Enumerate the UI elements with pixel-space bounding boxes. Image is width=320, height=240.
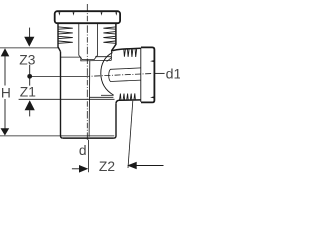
Z1 dimension arrow: [25, 100, 35, 116]
Z1 reference line: [19, 98, 115, 100]
top socket rim: [55, 11, 120, 23]
branch bottom fins: [120, 93, 136, 100]
d1 leader line: [155, 72, 165, 74]
top socket right fins: [103, 27, 115, 43]
top socket body right edge with taper: [111, 23, 116, 51]
shoulder step lines: [61, 51, 112, 61]
rim notch marks: [59, 12, 118, 16]
svg-text:Z1: Z1: [20, 85, 36, 100]
d extension line: [87, 140, 89, 173]
branch bottom outline: [116, 100, 141, 103]
main pipe left edge: [61, 52, 63, 139]
branch bore end arc: [109, 69, 111, 81]
Z2 extension line: [128, 101, 133, 168]
Z2 dimension arrow: [127, 162, 163, 170]
branch bottom contour lines: [90, 95, 114, 97]
branch top fins: [124, 49, 137, 57]
branch saddle inner diagonal: [107, 57, 112, 61]
H dimension line: [1, 48, 10, 135]
svg-text:Z3: Z3: [19, 52, 35, 67]
branch bore top line: [110, 68, 141, 69]
branch bore bottom line: [110, 80, 141, 81]
branch rim: [141, 47, 155, 102]
svg-text:d: d: [79, 143, 87, 158]
svg-text:H: H: [1, 86, 11, 101]
svg-text:Z2: Z2: [99, 159, 115, 174]
branch rim notch marks: [150, 60, 153, 98]
top socket left fins: [59, 27, 73, 43]
branch saddle arc: [101, 53, 114, 96]
reference dot: [27, 65, 32, 86]
vertical centerline (dash-dot): [86, 4, 88, 140]
top socket inner bore lines: [79, 23, 98, 59]
bottom reference line / chamfer line: [0, 135, 114, 137]
waterway inner line: [88, 60, 91, 136]
branch axis extension to reference dot: [31, 75, 84, 77]
top socket body left edge with taper: [58, 23, 61, 51]
d dimension arrow: [72, 165, 88, 173]
Z3 reference line: [0, 47, 59, 49]
main pipe bottom face: [63, 137, 114, 139]
main pipe right edge below branch: [114, 103, 116, 138]
svg-text:d1: d1: [166, 66, 180, 82]
branch top outline: [111, 48, 140, 51]
Z3 dimension arrow: [24, 28, 34, 47]
branch axis (dash-dot, sloped): [84, 74, 153, 77]
